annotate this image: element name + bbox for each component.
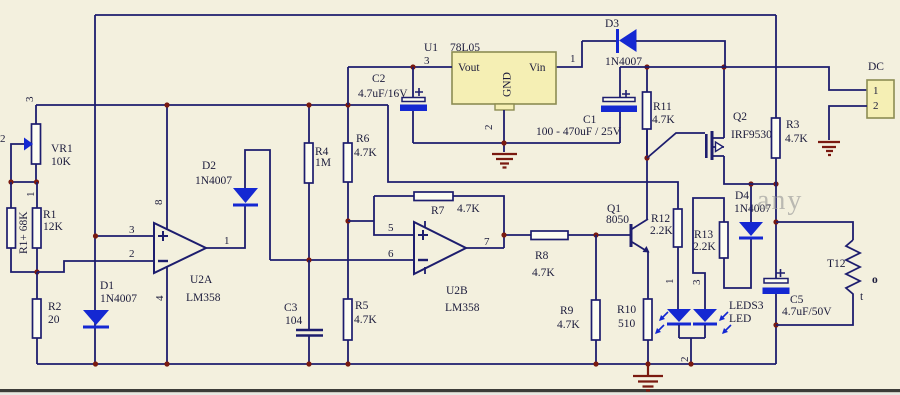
node dot 691,364: [688, 361, 693, 366]
LED light arrows left: [656, 312, 668, 333]
svg-text:C2: C2: [372, 73, 386, 85]
node dot 11,182: [8, 179, 13, 184]
svg-text:20: 20: [48, 314, 60, 326]
diode D2: [233, 188, 258, 203]
node dot 647,158: [644, 155, 649, 160]
resistor R4: [305, 143, 314, 183]
svg-text:R11: R11: [653, 101, 672, 113]
resistor R8: [531, 231, 568, 240]
wire gate diagonal: [647, 133, 705, 158]
svg-text:2: 2: [679, 357, 691, 363]
wire LED cathodes join: [679, 325, 705, 364]
resistor R2: [33, 299, 42, 338]
resistor R11: [643, 92, 652, 129]
svg-text:R1+ 68K: R1+ 68K: [18, 211, 30, 254]
capacitor C3: [296, 330, 323, 336]
node dot 309,260: [306, 257, 311, 262]
svg-text:C5: C5: [790, 294, 804, 306]
potentiometer VR1: [32, 124, 41, 164]
svg-text:1: 1: [570, 53, 576, 65]
diode D4: [739, 222, 763, 236]
svg-text:R13: R13: [694, 229, 713, 241]
wire R7 left lead: [374, 195, 414, 197]
svg-text:R8: R8: [535, 250, 549, 262]
wire main rail y105: [36, 104, 388, 106]
svg-text:1: 1: [224, 235, 230, 247]
resistor R1+ 68K: [7, 208, 16, 248]
resistor R3: [772, 118, 781, 158]
svg-text:R9: R9: [560, 305, 574, 317]
svg-text:U2B: U2B: [446, 285, 468, 297]
resistor R6: [344, 143, 353, 182]
svg-text:1: 1: [873, 85, 879, 97]
svg-text:C3: C3: [284, 302, 298, 314]
svg-text:1: 1: [25, 192, 37, 198]
svg-text:4.7K: 4.7K: [532, 267, 555, 279]
capacitor C5: [764, 279, 788, 284]
svg-text:12K: 12K: [43, 221, 64, 233]
node dot 348,364: [345, 361, 350, 366]
connector DC: [867, 80, 894, 118]
op-amp U2B: [414, 222, 466, 274]
svg-text:5: 5: [388, 222, 394, 234]
node dot 504,235: [501, 232, 506, 237]
svg-text:3: 3: [691, 279, 703, 285]
wire U1 pin2 GND: [503, 110, 505, 152]
wire link R6 to pin5 riser: [348, 196, 414, 235]
svg-text:D3: D3: [605, 18, 619, 30]
wire left vertical x95: [94, 15, 96, 364]
wire U2A output pin1: [206, 206, 245, 248]
svg-text:4.7K: 4.7K: [354, 314, 377, 326]
svg-text:R1: R1: [43, 209, 57, 221]
svg-text:6: 6: [388, 248, 394, 260]
diode D3: [616, 29, 619, 53]
svg-text:o: o: [872, 274, 878, 286]
node dot 348,221: [345, 218, 350, 223]
svg-text:R12: R12: [651, 213, 670, 225]
node dot 776,325: [773, 322, 778, 327]
svg-text:1N4007: 1N4007: [100, 293, 137, 305]
voltage regulator U1 box: [452, 52, 556, 104]
wire Vin net y67: [620, 67, 867, 90]
svg-text:4.7K: 4.7K: [557, 319, 580, 331]
wire R9 leads: [595, 235, 597, 364]
wire Q2 drain up / source down: [724, 67, 776, 184]
svg-text:U2A: U2A: [190, 274, 213, 286]
svg-text:D1: D1: [100, 280, 114, 292]
wire R7 right lead: [453, 196, 504, 248]
wire DC pin2 to ground: [829, 106, 867, 140]
svg-text:R6: R6: [356, 133, 370, 145]
svg-text:R7: R7: [431, 205, 445, 217]
svg-text:VR1: VR1: [51, 143, 73, 155]
svg-text:LEDS3: LEDS3: [729, 300, 764, 312]
node dot 647,67: [644, 64, 649, 69]
wire D4 top: [750, 184, 752, 222]
svg-text:2.2K: 2.2K: [650, 225, 673, 237]
node dot 96,236: [93, 233, 98, 238]
node dot 37,272: [34, 269, 39, 274]
svg-text:C1: C1: [583, 114, 597, 126]
svg-text:R10: R10: [617, 304, 636, 316]
VR1 wiper arrow: [24, 138, 33, 151]
ground (DC): [818, 142, 840, 155]
svg-text:100 - 470uF / 25V: 100 - 470uF / 25V: [536, 126, 622, 138]
wire U2A minus input path: [37, 261, 154, 272]
svg-text:2: 2: [483, 125, 495, 131]
svg-text:4.7K: 4.7K: [457, 203, 480, 215]
node dot 309,364: [306, 361, 311, 366]
op-amp U2A: [154, 223, 206, 273]
ground (main bottom): [633, 364, 663, 391]
transistor Q1: [630, 224, 633, 247]
svg-text:R2: R2: [48, 301, 62, 313]
svg-text:8: 8: [153, 199, 165, 205]
svg-text:D4: D4: [735, 190, 749, 202]
node dot 309,105: [306, 102, 311, 107]
svg-text:78L05: 78L05: [450, 42, 480, 54]
wire Q1 emitter / R10 leads: [647, 251, 649, 364]
resistor R5: [344, 299, 353, 340]
svg-text:Vout: Vout: [458, 62, 480, 74]
svg-text:2: 2: [873, 100, 879, 112]
LED LED1: [667, 309, 691, 322]
capacitor C1: [619, 67, 621, 143]
svg-text:3: 3: [24, 96, 36, 102]
node dot 596,364: [593, 361, 598, 366]
node dot 648,364: [645, 361, 650, 366]
capacitor C2: [412, 67, 414, 143]
wire ground line y143: [413, 142, 620, 144]
svg-text:4.7K: 4.7K: [785, 133, 808, 145]
node dot 413,67: [410, 64, 415, 69]
svg-text:LED: LED: [729, 313, 751, 325]
bottom border line: [0, 389, 900, 392]
wire VR1 top lead: [35, 105, 37, 124]
thermistor T12: [776, 222, 853, 240]
svg-text:3: 3: [129, 224, 135, 236]
svg-text:Q2: Q2: [733, 111, 747, 123]
svg-text:1N4007: 1N4007: [195, 175, 232, 187]
wire R2 leads: [36, 272, 38, 364]
resistor R12: [674, 209, 683, 247]
node dot 167,364: [164, 361, 169, 366]
svg-text:4.7K: 4.7K: [652, 114, 675, 126]
wire R12 to LED1: [677, 247, 679, 309]
wire U2A pin4: [166, 266, 168, 364]
svg-text:D2: D2: [202, 160, 216, 172]
resistor R13: [720, 222, 729, 258]
svg-text:2.2K: 2.2K: [693, 241, 716, 253]
svg-text:2: 2: [0, 133, 6, 145]
node dot 776,184: [773, 181, 778, 186]
node dot 776,222: [773, 219, 778, 224]
wire top rail: [95, 14, 776, 16]
node dot 504,143: [501, 140, 506, 145]
wire R4 leads: [308, 105, 310, 260]
svg-text:2: 2: [129, 248, 135, 260]
wire U2A plus input: [96, 235, 154, 237]
wire R1 leads: [36, 182, 38, 272]
svg-text:Vin: Vin: [529, 62, 546, 74]
wire D3 leads: [582, 41, 725, 67]
ground (under U1): [492, 154, 517, 168]
wire U2B pin6 line: [270, 259, 414, 261]
wire R1+ leads: [11, 182, 37, 272]
node dot 348,105: [345, 102, 350, 107]
svg-text:R3: R3: [786, 119, 800, 131]
wire VR1 wiper pin2: [11, 144, 24, 182]
svg-text:10K: 10K: [51, 156, 72, 168]
node dot 751,184: [748, 181, 753, 186]
resistor R1: [33, 208, 42, 248]
LED LED2: [693, 309, 717, 322]
node dot 96,364: [93, 361, 98, 366]
node dot 724,67: [721, 64, 726, 69]
node dot 37,182: [34, 179, 39, 184]
svg-text:4.7uF/16V: 4.7uF/16V: [358, 88, 408, 100]
svg-text:8050: 8050: [606, 214, 629, 226]
wire VR1 bottom lead: [35, 164, 37, 182]
wire C3 leads: [308, 260, 310, 364]
svg-text:4: 4: [154, 295, 166, 301]
svg-text:104: 104: [285, 315, 303, 327]
svg-text:DC: DC: [868, 61, 884, 73]
svg-text:T12: T12: [827, 258, 846, 270]
wire U1 Vin to D3: [556, 41, 582, 67]
wire link y182: [11, 181, 37, 183]
node dot 167,105: [164, 102, 169, 107]
svg-text:1M: 1M: [315, 157, 331, 169]
wire D2 anode loop: [245, 150, 270, 260]
mosfet Q2: [705, 134, 708, 158]
wire R8 to Q1 base: [568, 234, 630, 236]
node dot 596,235: [593, 232, 598, 237]
wire R13 bottom to D4 bottom: [724, 239, 751, 288]
resistor R10: [644, 299, 653, 340]
svg-text:510: 510: [618, 318, 636, 330]
svg-text:IRF9530: IRF9530: [731, 129, 772, 141]
wire U1 pin3 Vout: [348, 67, 452, 105]
svg-text:U1: U1: [424, 42, 438, 54]
diode D1: [83, 310, 109, 325]
svg-text:R5: R5: [355, 300, 369, 312]
svg-text:4.7uF/50V: 4.7uF/50V: [782, 306, 832, 318]
wire bottom rail: [37, 363, 776, 365]
svg-text:LM358: LM358: [186, 292, 221, 304]
wire R6/R5 vertical chain: [347, 105, 349, 364]
svg-text:1: 1: [664, 279, 676, 285]
wire R13 top to LED2 path: [693, 198, 724, 309]
svg-text:any: any: [757, 185, 803, 216]
resistor R7: [414, 192, 453, 201]
svg-text:3: 3: [424, 55, 430, 67]
resistor R9: [592, 300, 601, 340]
wire right vertical x776 R3 leads: [775, 15, 777, 364]
wire U2A pin8: [166, 105, 168, 230]
svg-text:4.7K: 4.7K: [354, 147, 377, 159]
wire rail drop x388 and y182 rail: [388, 105, 678, 209]
svg-text:LM358: LM358: [445, 302, 480, 314]
LED light arrows right: [720, 312, 731, 333]
svg-text:GND: GND: [502, 72, 514, 97]
wire Q1 collector vertical: [646, 129, 648, 219]
svg-text:7: 7: [484, 236, 490, 248]
wire R11 leads: [646, 67, 648, 158]
wire output to R8: [504, 234, 531, 236]
